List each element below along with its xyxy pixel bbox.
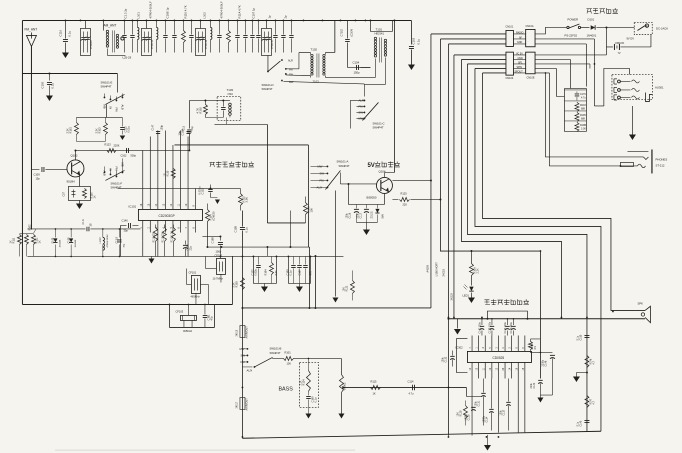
svg-text:U1B/SHORT: U1B/SHORT [435,262,438,277]
svg-text:HID341: HID341 [374,31,384,35]
svg-text:3.3K: 3.3K [275,270,278,275]
svg-text:100u: 100u [474,400,477,406]
svg-text:3K01B: 3K01B [442,269,445,277]
svg-text:R110 4.7K: R110 4.7K [183,5,187,18]
svg-text:1B: 1B [163,173,166,176]
svg-text:C132: C132 [444,356,447,362]
svg-text:CF103: CF103 [175,309,183,313]
svg-text:1K: 1K [38,240,41,243]
svg-text:0.1u: 0.1u [416,39,420,45]
svg-text:C105: C105 [40,81,44,88]
svg-text:SPK: SPK [637,301,643,305]
svg-text:R103: R103 [98,127,101,134]
svg-text:C15B: C15B [233,226,237,233]
svg-text:L102: L102 [202,12,206,19]
svg-text:ALB: ALB [120,104,124,109]
svg-text:7V: 7V [617,52,620,55]
svg-text:POWER: POWER [567,17,578,21]
svg-text:220: 220 [402,202,407,206]
svg-text:C57: C57 [62,191,65,196]
svg-text:2.2K: 2.2K [299,380,302,385]
svg-text:0.1u: 0.1u [244,227,248,233]
svg-text:C134: C134 [485,416,488,422]
svg-text:1K: 1K [93,195,96,198]
svg-text:D105: D105 [52,237,55,243]
svg-text:IC101: IC101 [128,204,136,208]
svg-text:10K: 10K [456,412,459,417]
svg-text:5V: 5V [367,163,374,169]
svg-text:3.3K: 3.3K [244,197,248,203]
svg-text:L101: L101 [136,12,140,19]
svg-text:AU301: AU301 [655,85,664,89]
svg-text:220u: 220u [530,382,533,388]
svg-text:R164: R164 [264,269,267,276]
svg-text:1N4148: 1N4148 [59,239,61,247]
svg-text:SW4P4T: SW4P4T [338,164,349,168]
svg-text:1000u: 1000u [482,415,485,422]
svg-text:C15: C15 [182,125,185,130]
svg-text:0.1u: 0.1u [50,83,54,89]
svg-text:BS8050: BS8050 [366,195,376,199]
svg-text:SW4P4T: SW4P4T [100,84,111,88]
svg-text:R15B: R15B [235,281,238,288]
svg-text:9018H: 9018H [66,179,74,183]
svg-text:AM_ANT: AM_ANT [103,23,116,27]
svg-text:R11B 22K: R11B 22K [161,231,164,242]
svg-text:FM: FM [114,107,118,112]
svg-text:10.7MHz: 10.7MHz [212,276,223,280]
svg-text:100u: 100u [345,212,348,218]
svg-text:47R04-560LF: 47R04-560LF [107,233,109,247]
svg-text:3B: 3B [89,223,92,226]
svg-text:4.7u: 4.7u [408,391,414,395]
svg-text:(C104): (C104) [350,29,353,37]
svg-text:68K: 68K [581,107,586,110]
svg-text:C10B: C10B [67,237,70,243]
svg-text:0.1u: 0.1u [289,270,292,275]
svg-text:SW4P4T: SW4P4T [372,125,383,129]
svg-text:1N4148: 1N4148 [75,239,77,247]
svg-text:100p: 100p [215,249,221,253]
svg-text:0.1u: 0.1u [576,335,579,340]
svg-text:R102: R102 [28,224,31,231]
svg-text:SW4P4T: SW4P4T [110,185,121,189]
svg-text:C162: C162 [120,154,127,157]
svg-text:C116: C116 [58,30,62,37]
svg-text:10K: 10K [342,287,345,292]
svg-text:1000u: 1000u [464,413,467,420]
svg-text:OSC: OSC [227,92,233,96]
svg-text:T102: T102 [310,47,317,51]
svg-text:C114: C114 [407,379,414,383]
svg-text:15p: 15p [35,176,40,180]
svg-text:C136 220u: C136 220u [511,321,513,333]
svg-text:47R04-560LF: 47R04-560LF [219,1,223,18]
svg-text:L10.2: L10.2 [99,237,102,244]
svg-text:C117: C117 [359,212,362,218]
svg-text:SW101-B: SW101-B [269,346,281,350]
svg-text:C12B: C12B [467,414,470,420]
svg-text:R15D: R15D [69,127,72,134]
svg-text:220u: 220u [356,212,359,218]
svg-text:220K: 220K [113,143,119,147]
svg-text:0.1u: 0.1u [314,397,317,402]
svg-text:100: 100 [309,208,313,213]
svg-text:68K: 68K [581,117,586,120]
svg-text:C1.3 2p: C1.3 2p [123,8,127,18]
svg-text:PVC-B: PVC-B [204,40,208,49]
svg-text:100u: 100u [499,409,502,415]
svg-text:CN10E: CN10E [526,76,534,79]
svg-text:AAIR/OUT: AAIR/OUT [244,326,248,339]
svg-text:0.63u: 0.63u [254,269,257,276]
svg-text:D101: D101 [587,17,594,21]
svg-text:3.3K: 3.3K [232,282,235,287]
svg-text:C145: C145 [579,420,582,426]
svg-text:C13.9: C13.9 [116,236,119,243]
svg-text:FM_ANT: FM_ANT [24,27,37,31]
svg-text:(CMEB): (CMEB) [212,211,215,220]
svg-text:C146: C146 [121,218,128,222]
svg-text:9V DV: 9V DV [626,36,634,40]
svg-text:VR302: VR302 [342,382,346,390]
svg-text:AAIR/OUT: AAIR/OUT [244,398,248,411]
svg-text:AUX: AUX [246,368,252,372]
svg-text:C109: C109 [33,172,40,176]
svg-text:IN: IN [108,106,112,109]
svg-text:2200u: 2200u [541,359,544,366]
svg-text:41p: 41p [191,126,194,131]
svg-text:ZD101: ZD101 [370,211,373,219]
svg-text:Q104: Q104 [378,169,385,173]
svg-text:CD0525: CD0525 [492,356,504,360]
svg-text:C148: C148 [544,360,547,366]
svg-text:R111: R111 [12,237,15,243]
svg-text:R123: R123 [104,142,111,146]
svg-text:DC-JACK: DC-JACK [656,26,668,30]
svg-text:C13B 100u: C13B 100u [489,321,491,333]
svg-text:R150: R150 [166,170,169,176]
svg-text:470: 470 [309,271,312,276]
svg-text:C147: C147 [151,124,154,130]
svg-text:100: 100 [286,361,291,365]
svg-text:C150: C150 [579,334,582,340]
svg-text:47p: 47p [210,316,213,321]
svg-text:R12B: R12B [459,410,462,416]
svg-text:C133 100u: C133 100u [505,321,507,333]
svg-text:Q102: Q102 [70,153,77,157]
svg-text:T103: T103 [226,88,233,92]
svg-text:BASS: BASS [278,386,293,392]
svg-text:22u: 22u [189,246,192,251]
svg-text:4.7u: 4.7u [581,96,586,99]
svg-text:100p: 100p [160,124,163,130]
svg-text:R125: R125 [400,191,407,195]
svg-text:PS-22F02: PS-22F02 [564,33,577,37]
svg-text:3K01B: 3K01B [450,293,453,301]
svg-text:PVC-A: PVC-A [150,40,154,49]
svg-text:SW4P4T: SW4P4T [261,87,272,91]
svg-text:100u: 100u [441,356,444,362]
svg-text:L25-29: L25-29 [122,55,131,59]
svg-text:CN10A: CN10A [525,25,533,28]
svg-text:4.7K: 4.7K [195,108,199,114]
svg-text:2p: 2p [283,15,287,19]
svg-text:0.1u: 0.1u [576,421,579,426]
svg-text:C103: C103 [411,37,415,44]
svg-text:3K019: 3K019 [236,329,238,336]
svg-text:C167: C167 [298,269,301,276]
svg-text:R11C 1.2K: R11C 1.2K [170,231,173,243]
svg-text:465KHz: 465KHz [190,294,200,298]
svg-text:PVCO: PVCO [89,40,93,49]
svg-text:C140 100u: C140 100u [479,321,481,333]
svg-text:C137: C137 [502,409,505,415]
svg-text:R115: R115 [370,379,377,383]
svg-text:MB: MB [102,104,106,108]
svg-text:C10B 1p: C10B 1p [165,7,169,18]
svg-text:CD2003GP: CD2003GP [158,214,174,218]
svg-text:PHONES: PHONES [655,157,667,161]
svg-text:1N4001: 1N4001 [586,33,596,37]
svg-text:ALR: ALR [288,59,293,62]
svg-text:C131: C131 [477,400,480,406]
svg-text:3.3K: 3.3K [95,128,98,133]
svg-text:R118 220: R118 220 [152,232,155,243]
svg-text:1K: 1K [372,391,375,395]
svg-text:C168: C168 [210,237,214,244]
svg-text:C104: C104 [352,60,359,64]
svg-text:PVC-C: PVC-C [270,40,274,49]
svg-text:1p: 1p [267,15,271,19]
svg-text:R101: R101 [284,350,291,354]
svg-text:0.01u: 0.01u [127,126,130,133]
svg-text:R124: R124 [302,379,305,386]
svg-text:CF101: CF101 [188,270,196,274]
svg-text:CF102: CF102 [214,253,222,257]
svg-text:LED1: LED1 [462,293,469,297]
svg-text:SW101-A: SW101-A [336,159,348,163]
svg-text:C142: C142 [533,382,536,388]
svg-text:3.3K: 3.3K [66,128,69,133]
svg-text:47R04-560LF: 47R04-560LF [148,1,152,18]
svg-text:C7102: C7102 [340,28,343,36]
svg-text:R122: R122 [345,285,348,291]
svg-text:R11A 4.7K: R11A 4.7K [237,5,241,18]
svg-text:C118: C118 [348,212,351,218]
svg-text:A410B: A410B [426,265,429,273]
svg-text:C107 1p: C107 1p [251,7,255,18]
svg-text:3.3K: 3.3K [581,127,586,130]
svg-text:SW4P4T: SW4P4T [269,351,280,355]
svg-text:500p: 500p [130,154,136,157]
svg-text:CN101: CN101 [505,25,513,28]
svg-text:1K: 1K [9,240,12,243]
svg-text:3K017: 3K017 [236,401,238,408]
svg-text:465KHz: 465KHz [183,329,193,333]
svg-text:2.2K: 2.2K [476,268,479,273]
svg-text:5V6: 5V6 [381,214,384,219]
svg-text:ST-212: ST-212 [655,163,664,167]
svg-text:0.033u: 0.033u [197,186,201,194]
svg-text:CN104: CN104 [505,77,513,80]
svg-text:C1.6: C1.6 [82,219,85,225]
svg-text:150p: 150p [353,70,360,74]
svg-text:0.1u: 0.1u [67,31,71,37]
